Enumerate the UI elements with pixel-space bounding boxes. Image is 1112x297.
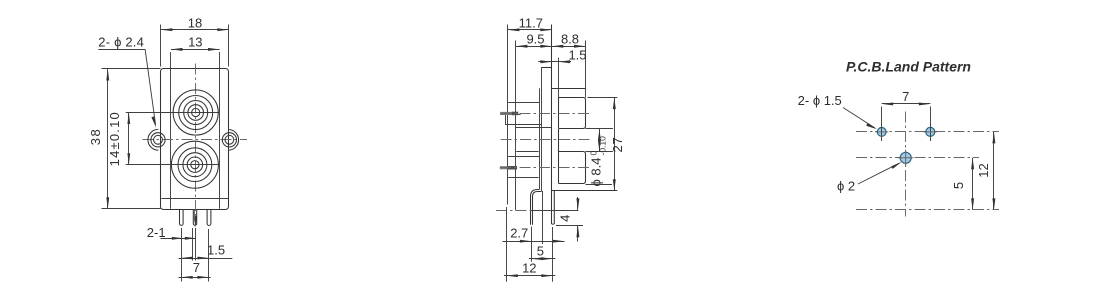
svg-text:9.5: 9.5 (526, 32, 544, 47)
main inner wall (540, 68, 542, 192)
phi 8.4 extension lines (586, 129, 614, 185)
dimension 7 (front pins) (179, 260, 211, 279)
lower RCA socket rings (171, 141, 218, 188)
tick through center pad (898, 150, 914, 166)
upper socket centerline (500, 113, 590, 115)
middle centerline (501, 139, 590, 141)
svg-text:-0.10: -0.10 (598, 136, 608, 156)
bottom reference line (856, 209, 999, 211)
upper contact pin (gray) (500, 112, 518, 116)
vertical centerline (905, 112, 907, 217)
svg-text:27: 27 (610, 136, 625, 152)
back plate left edge (507, 25, 509, 205)
pin extension lines (182, 228, 209, 282)
label 2-1 with leader (147, 225, 197, 240)
label 2-phi2.4 with leader (98, 34, 156, 128)
dimension 4 (556, 197, 583, 242)
wall between barrels (558, 129, 560, 152)
left mounting ear (148, 129, 165, 150)
lower contact pin (gray) (500, 166, 517, 170)
horizontal centerline through top pads (856, 131, 999, 133)
upper barrel (559, 98, 586, 129)
svg-text:12: 12 (522, 260, 536, 275)
svg-text:14±0.10: 14±0.10 (107, 111, 122, 166)
top tab (541, 67, 552, 69)
svg-text:1.5: 1.5 (568, 47, 586, 62)
svg-text:P.C.B.Land Pattern: P.C.B.Land Pattern (846, 58, 971, 74)
svg-text:2- ϕ 1.5: 2- ϕ 1.5 (798, 93, 842, 108)
svg-text:12: 12 (976, 163, 991, 177)
right pad (phi 1.5) (926, 127, 935, 136)
dimension 2.7 (503, 191, 565, 282)
svg-text:ϕ 8.4: ϕ 8.4 (589, 158, 604, 187)
dimension 27 (588, 98, 625, 191)
svg-text:13: 13 (188, 35, 202, 50)
svg-text:5: 5 (951, 182, 966, 189)
svg-text:2- ϕ 2.4: 2- ϕ 2.4 (98, 34, 144, 49)
body bottom right edge (also ext of 27) (552, 190, 618, 192)
seating plane line (496, 210, 579, 212)
lower left block (508, 152, 539, 178)
dimension phi 8.4 0/-0.10 (588, 129, 607, 187)
dimension 8.8 (552, 32, 586, 48)
svg-text:7: 7 (902, 89, 909, 104)
label phi2 with leader (837, 162, 902, 194)
front wall (551, 25, 553, 191)
horizontal centerline through middle pad (856, 157, 979, 159)
dimension 13 (171, 35, 220, 51)
step edge / ext 8.8 right (585, 41, 587, 98)
svg-text:2-1: 2-1 (147, 225, 166, 240)
dimension 7 (pcb) (882, 89, 931, 126)
front pin (side view) (552, 191, 555, 225)
inner vertical lines (13 width extension) (171, 52, 220, 209)
dimension 12 (pcb) (976, 132, 995, 210)
tick through right pad (924, 123, 937, 141)
upper RCA socket rings (173, 90, 218, 135)
vertical centerline (194, 64, 197, 228)
right mounting ear (222, 130, 238, 151)
centerline through upper socket (also ext for 14 dim) (126, 112, 220, 114)
body top edge (552, 88, 586, 90)
tick through left pad (875, 123, 888, 141)
lower socket centerline (500, 167, 590, 169)
centerline through lower socket (also ext for 14 dim) (126, 164, 220, 166)
left pad (phi 1.5) (877, 127, 886, 136)
svg-text:8.8: 8.8 (561, 32, 579, 47)
body outline (161, 69, 229, 210)
svg-text:1.5: 1.5 (207, 243, 225, 258)
dimension 5 (side) (529, 227, 556, 282)
dimension 11.7 (508, 15, 552, 31)
svg-text:5: 5 (537, 243, 544, 258)
interior horizontal line near bottom (161, 198, 228, 200)
svg-text:4: 4 (558, 215, 573, 222)
svg-text:7: 7 (193, 260, 200, 275)
dimension 14 +/-0.10 (107, 111, 130, 166)
svg-text:18: 18 (188, 15, 202, 30)
svg-text:38: 38 (88, 128, 103, 145)
left pin (180, 210, 184, 226)
svg-text:2.7: 2.7 (510, 226, 528, 241)
center pad (phi 2) (900, 152, 911, 163)
dimension 38 (left) (88, 69, 161, 209)
horizontal centerline through ears (143, 139, 248, 141)
dimension 18 (top) (161, 15, 229, 66)
dimension 12 (side) (504, 260, 555, 277)
svg-text:ϕ 2: ϕ 2 (837, 178, 855, 193)
svg-text:11.7: 11.7 (519, 15, 543, 30)
dimension 1.5 (front pins) (179, 243, 233, 260)
label 2-phi1.5 with leader (798, 93, 878, 130)
title (846, 58, 971, 74)
bent shield leg (531, 190, 542, 225)
dimension 9.5 (516, 32, 552, 48)
back plate right edge (515, 41, 517, 211)
dimension 1.5 (side) (538, 47, 586, 63)
upper left block (505, 103, 552, 128)
dimension 5 (pcb) (951, 158, 974, 210)
step ext for 1.5 (558, 58, 560, 98)
lower barrel (559, 152, 586, 184)
center pin (193, 210, 196, 226)
right pin (207, 210, 211, 226)
